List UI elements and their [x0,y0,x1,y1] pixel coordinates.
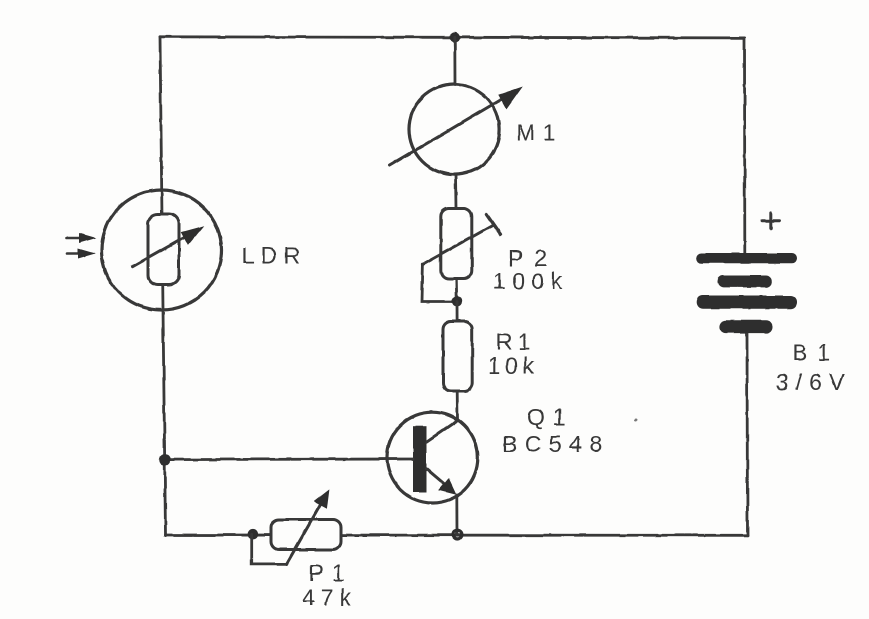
wire: left rail [160,37,166,535]
wire: R1 to Q1 collector [456,391,459,420]
wire: right rail lower (from battery -) [746,333,749,535]
wire: M1 to P2 [454,175,457,209]
node: emitter junction on bottom rail [453,530,462,539]
resistor R1 [443,322,472,392]
light arrow 2 [67,249,94,258]
svg-text:P1: P1 [309,560,353,586]
wire: top junction to M1 [453,37,456,84]
wire: top rail [160,37,745,38]
node: base junction on left rail [159,454,170,465]
svg-text:M1: M1 [516,120,563,146]
svg-text:R1: R1 [496,329,535,355]
transistor Q1 (NPN BC548) [387,412,478,535]
battery B1 [696,253,797,333]
node: top junction [450,32,460,42]
wire: P2 to node [455,279,458,302]
svg-text:10k: 10k [488,353,539,379]
svg-text:Q1: Q1 [527,404,574,430]
light arrow 1 [67,234,95,243]
node: P2/R1 junction [452,296,462,306]
potentiometer P1 (rheostat-connected) [248,491,341,564]
wire: bottom rail [166,534,748,537]
svg-text:LDR: LDR [242,243,307,269]
potentiometer P2 (trimmer, rheostat-connected) [422,209,501,302]
svg-text:BC548: BC548 [502,431,610,457]
svg-text:B1: B1 [792,340,840,366]
wire: node to R1 [456,302,459,322]
wire: base wire from left rail to Q1 [165,458,413,461]
stray scan speck [635,419,638,422]
meter M1 [390,84,522,175]
wire: right rail upper (to battery +) [743,38,746,254]
battery plus sign [762,213,779,229]
LDR [102,190,222,310]
svg-text:3/6V: 3/6V [776,369,851,395]
svg-text:100k: 100k [493,268,569,294]
svg-text:47k: 47k [302,585,357,611]
